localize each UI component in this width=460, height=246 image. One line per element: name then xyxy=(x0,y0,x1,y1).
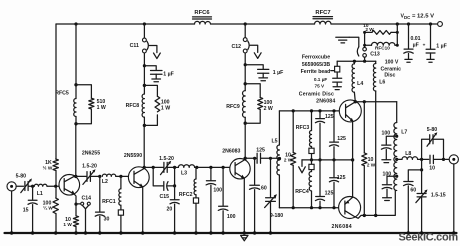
svg-text:C12: C12 xyxy=(232,44,242,50)
resistor R 1K 1/2W xyxy=(53,159,58,170)
svg-text:125: 125 xyxy=(325,190,334,196)
node RFC1 tap xyxy=(119,175,122,178)
feedthrough capacitor C11 xyxy=(130,38,161,59)
svg-text:L7: L7 xyxy=(401,129,407,135)
RFC5 xyxy=(55,24,77,126)
Q1 emitter wire xyxy=(75,194,77,233)
svg-text:100: 100 xyxy=(381,130,390,136)
wire L2 to Q2 base xyxy=(116,175,134,177)
variable capacitor C 5-80 (input) xyxy=(16,173,32,192)
svg-text:30: 30 xyxy=(104,217,110,223)
svg-text:RFC2: RFC2 xyxy=(179,192,193,198)
node after C input xyxy=(31,185,34,188)
node C/L2 xyxy=(98,175,101,178)
resistor R 100 2W (parallel RFC9) xyxy=(245,84,273,123)
input RF connector J1 xyxy=(7,182,16,191)
middle emitter wire xyxy=(302,159,353,161)
svg-text:VDC = 12.5 V: VDC = 12.5 V xyxy=(401,14,435,20)
svg-text:RFC7: RFC7 xyxy=(315,10,330,16)
capacitor C 100 (output bottom) xyxy=(382,171,398,200)
svg-text:1 µF: 1 µF xyxy=(273,70,283,76)
resistor R 10 2W (base damp) xyxy=(284,109,296,209)
Q4 collector wire xyxy=(355,101,396,103)
inductor L4 xyxy=(352,61,363,101)
capacitor C 1uF (Q2 supply bypass) xyxy=(143,64,174,82)
svg-text:1 W: 1 W xyxy=(161,105,170,111)
ferrite bead (base feed) xyxy=(335,61,340,77)
capacitor C 125 (series, Q3 out) xyxy=(245,147,270,163)
resistor R 10 2W (supply decoupling) xyxy=(363,23,399,34)
RFC6 xyxy=(193,10,212,24)
svg-text:C11: C11 xyxy=(130,43,139,49)
resistor R 510 1W (parallel RFC5) xyxy=(76,85,106,124)
capacitor C 125 (base top b) xyxy=(329,109,346,160)
svg-text:Disc: Disc xyxy=(384,73,395,79)
svg-text:RFC9: RFC9 xyxy=(226,104,240,110)
inductor L6 xyxy=(373,61,385,215)
svg-text:125: 125 xyxy=(337,136,346,142)
Q3 emitter to ground xyxy=(243,178,245,233)
RFC1 with ferrite bead xyxy=(102,176,123,233)
svg-text:L5: L5 xyxy=(271,138,277,144)
feedthrough capacitor C12 xyxy=(232,38,262,59)
svg-text:60: 60 xyxy=(261,186,267,192)
inductor L3 xyxy=(175,165,197,177)
Q5 collector wire xyxy=(355,191,396,219)
svg-text:SeekIC.com: SeekIC.com xyxy=(399,231,459,243)
capacitor C 30 (shunt) xyxy=(95,176,109,233)
ground (C13) xyxy=(336,37,349,43)
variable capacitor C 1.5-20 (2nd) xyxy=(159,156,174,174)
svg-text:L4: L4 xyxy=(357,81,363,87)
svg-text:2 W: 2 W xyxy=(365,27,374,32)
capacitor C 1uF (supply, polarized) xyxy=(423,24,447,62)
wire to L5 center tap xyxy=(271,157,280,159)
capacitor C 1uF (Q3 supply bypass) xyxy=(244,63,284,81)
svg-text:µF: µF xyxy=(413,43,419,49)
Q4 emitter wire down xyxy=(352,121,354,160)
Q1 collector wire up to RFC5 xyxy=(75,124,77,177)
node L3 / RFC2 xyxy=(195,166,198,169)
svg-text:C15: C15 xyxy=(160,194,170,200)
Q5 emitter wire up xyxy=(352,160,354,198)
svg-text:RFC8: RFC8 xyxy=(126,103,140,109)
transistor Q3 2N6083 xyxy=(222,149,250,179)
svg-text:5-80: 5-80 xyxy=(427,127,437,133)
capacitor C 60 (output shunt) xyxy=(404,170,422,233)
svg-text:1.5-20: 1.5-20 xyxy=(82,164,97,170)
svg-text:1 W: 1 W xyxy=(63,222,72,227)
capacitor C 125 (base bottom b) xyxy=(315,160,333,209)
svg-text:1 µF: 1 µF xyxy=(163,71,173,77)
svg-text:20: 20 xyxy=(167,206,173,212)
inductor L1 xyxy=(34,184,47,197)
svg-text:+: + xyxy=(423,42,426,47)
ground (middle wire) xyxy=(299,160,306,173)
svg-text:Ferrite bead: Ferrite bead xyxy=(301,69,331,75)
resistor R 10 1W (Q1 emitter) xyxy=(73,216,78,227)
svg-text:100 V: 100 V xyxy=(385,60,399,66)
wire L1 to Q1 base xyxy=(47,185,64,187)
RFC3 with ferrite bead xyxy=(296,109,314,160)
capacitor C 125 (base top a) xyxy=(315,109,333,160)
Q3 collector node wire xyxy=(244,123,246,158)
capacitor C 60 (shunt) xyxy=(250,157,267,233)
capacitor C 100 (shunt a) xyxy=(206,166,222,233)
node below L8 xyxy=(421,159,423,170)
earth ground symbol xyxy=(241,235,248,240)
svg-text:2N6083: 2N6083 xyxy=(222,149,240,155)
node base bus xyxy=(54,185,57,188)
capacitor C 0.01uF xyxy=(404,24,421,62)
svg-text:5-80: 5-80 xyxy=(16,173,26,179)
node L8 out xyxy=(420,158,423,161)
svg-text:RFC10: RFC10 xyxy=(375,46,390,51)
svg-text:2N6084: 2N6084 xyxy=(316,99,335,105)
transistor Q5 2N6084 (bottom) xyxy=(332,197,361,231)
top supply rail xyxy=(56,23,437,25)
inductor L2 xyxy=(102,174,116,185)
svg-text:2 W: 2 W xyxy=(367,163,376,168)
capacitor C 100 (output top) xyxy=(381,130,398,162)
output RF connector J2 xyxy=(444,155,459,233)
trimmer capacitor C14 xyxy=(76,195,91,233)
top base wire (Q4) xyxy=(279,110,345,112)
variable capacitor C 5-80 (output) xyxy=(422,127,444,160)
left bus wire x=56 xyxy=(55,24,57,233)
svg-text:0.1 µF: 0.1 µF xyxy=(314,77,328,82)
svg-text:¼ W: ¼ W xyxy=(43,205,53,211)
RFC2 with ferrite bead xyxy=(179,167,199,233)
capacitor C 10 (series out) xyxy=(429,155,443,171)
resistor R 100 1/4W xyxy=(53,198,58,213)
svg-text:9-180: 9-180 xyxy=(270,213,283,219)
svg-text:L2: L2 xyxy=(102,179,108,185)
RFC9 xyxy=(226,82,247,125)
svg-text:1 µF: 1 µF xyxy=(436,43,446,49)
svg-text:RFC4: RFC4 xyxy=(295,189,309,195)
RFC7 xyxy=(313,10,333,24)
resistor R 10 2W (feedback) xyxy=(362,102,376,216)
svg-text:2 W: 2 W xyxy=(264,106,273,112)
svg-text:125: 125 xyxy=(256,147,265,153)
rail junction dots xyxy=(10,231,13,234)
svg-text:75 V: 75 V xyxy=(314,83,325,88)
svg-text:½ W: ½ W xyxy=(43,164,53,170)
transistor Q2 2N5590 xyxy=(124,153,149,187)
ground rail (bottom bus) xyxy=(5,232,457,234)
capacitor C 100 (shunt b) xyxy=(218,166,235,233)
svg-text:RFC6: RFC6 xyxy=(194,10,210,16)
Q2 emitter wire to ground xyxy=(142,188,144,233)
svg-text:100: 100 xyxy=(213,187,222,193)
svg-text:C13: C13 xyxy=(370,51,380,57)
Q4 collector node xyxy=(354,100,357,103)
svg-text:2N5590: 2N5590 xyxy=(124,153,142,159)
capacitor C15 (parallel branch) xyxy=(153,166,176,200)
svg-text:2N6255: 2N6255 xyxy=(82,150,100,156)
Q3 supply drop x=245 from rail xyxy=(244,24,246,84)
C13 drop / parallel R-RFC10 xyxy=(364,32,366,61)
variable capacitor C 1.5-20 (Q1 collector) xyxy=(76,164,100,185)
wire to Q3 base xyxy=(197,166,235,168)
svg-text:C14: C14 xyxy=(82,195,92,201)
transistor Q1 2N6255 xyxy=(59,150,100,195)
Q2 collector wire up xyxy=(143,125,145,168)
svg-text:15: 15 xyxy=(23,207,29,213)
svg-text:125: 125 xyxy=(325,114,334,120)
svg-text:Ceramic: Ceramic xyxy=(381,66,402,72)
svg-text:1.5-20: 1.5-20 xyxy=(159,156,174,162)
Q2 collector output wire xyxy=(144,166,163,168)
transistor Q4 2N6084 (top) xyxy=(316,99,361,122)
capacitor C 0.1uF (base feed bypass) xyxy=(333,78,342,89)
Vdc terminal xyxy=(438,22,443,27)
supply drop wire x=144 from rail xyxy=(143,24,145,85)
svg-text:100: 100 xyxy=(382,171,391,177)
variable capacitor C 1.5-15 xyxy=(416,170,446,233)
bottom base wire (Q5) xyxy=(279,207,345,209)
svg-text:Ceramic Disc: Ceramic Disc xyxy=(299,91,334,97)
svg-text:1.5-15: 1.5-15 xyxy=(431,192,446,198)
inductor L7 (output transformer) xyxy=(394,102,408,191)
svg-text:RFC3: RFC3 xyxy=(296,125,310,131)
svg-text:100: 100 xyxy=(227,214,236,220)
capacitor C 15 (shunt) xyxy=(23,186,37,233)
svg-text:L8: L8 xyxy=(405,151,411,157)
svg-text:5659065/3B: 5659065/3B xyxy=(302,62,331,68)
svg-text:0.01: 0.01 xyxy=(410,36,420,42)
inductor L5 (input balun) xyxy=(271,111,279,208)
svg-text:RFC5: RFC5 xyxy=(55,91,69,97)
resistor R 100 1W (parallel RFC8) xyxy=(144,85,170,125)
RFC8 xyxy=(126,84,146,127)
capacitor C 125 (base bottom a) xyxy=(329,160,345,209)
svg-text:2 W: 2 W xyxy=(284,158,293,163)
DC feed wire xyxy=(337,60,376,62)
rail junction dots xyxy=(74,22,77,25)
variable capacitor C 9-180 (shunt) xyxy=(265,157,284,233)
svg-text:L3: L3 xyxy=(181,171,187,177)
svg-text:125: 125 xyxy=(337,175,346,181)
svg-text:2N6084: 2N6084 xyxy=(332,224,353,230)
svg-text:RFC1: RFC1 xyxy=(102,199,116,205)
RFC10 xyxy=(363,24,399,51)
svg-text:10: 10 xyxy=(429,166,435,172)
svg-text:L1: L1 xyxy=(37,191,43,197)
svg-text:60: 60 xyxy=(410,188,416,194)
capacitor C 20 (shunt) xyxy=(167,186,180,233)
svg-text:L6: L6 xyxy=(379,79,385,85)
inductor L8 xyxy=(395,151,429,161)
svg-text:1 W: 1 W xyxy=(97,105,106,111)
feedthrough capacitor C13 xyxy=(349,37,380,57)
RFC4 with ferrite bead xyxy=(295,160,314,209)
svg-text:Ferroxcube: Ferroxcube xyxy=(302,54,330,60)
